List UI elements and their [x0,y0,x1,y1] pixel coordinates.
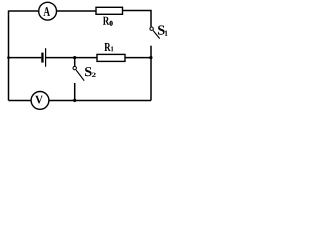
switch S2 [73,66,96,80]
battery [41,48,46,67]
node junction right (middle wire to right vertical) [149,56,152,59]
voltmeter V [31,92,49,110]
wire middle left segment (node to battery) [9,57,42,59]
node junction bottom (S2 branch on bottom wire) [73,99,76,102]
wire middle segment (battery to R1) [46,57,97,59]
wire S2 branch lower [74,83,76,101]
resistor R0 [96,7,123,25]
wire bottom right segment (voltmeter to right corner) [49,100,151,102]
ammeter A [39,2,57,20]
wire top middle segment (ammeter to R0) [57,10,97,12]
wire S2 branch upper [74,58,76,67]
wire left vertical [8,11,10,101]
wire top right segment (R0 to corner) [123,11,152,27]
wire right vertical (switch S1 lower terminal to bottom wire) [150,46,152,101]
node junction middle (S2 branch on middle wire) [73,56,76,59]
switch S1 [150,25,168,38]
resistor R1 [97,43,125,61]
wire middle right segment (R1 to right vertical) [125,57,151,59]
wire top left segment [9,10,39,12]
wire bottom left segment [9,100,32,102]
node junction left middle (battery wire to left vertical) [7,56,10,59]
